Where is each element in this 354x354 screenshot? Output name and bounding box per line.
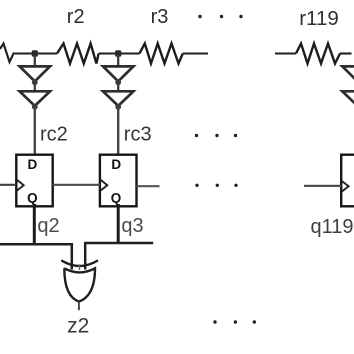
svg-text:r2: r2 [67,6,85,28]
label q2 [37,215,59,237]
wire (node rc2 down) [34,55,36,67]
label r119 [299,7,339,30]
wire rc3 (down to flip-flop) [117,107,119,155]
svg-text:rc3: rc3 [124,123,152,145]
svg-text:D: D [111,157,121,172]
wire q3 (Q output down) [117,206,120,244]
wire (between buffers col rc2) [34,82,36,92]
xor gate center tick [79,264,81,270]
node rc3 junction [115,50,121,57]
svg-text:r3: r3 [151,6,169,28]
label Q (U3) [111,190,122,205]
inverter buffer 1 col rc119 (clipped) [342,66,354,81]
node rc2 junction [32,50,38,57]
xor gate input arc [61,260,98,266]
resistor r119 [296,44,340,64]
flip-flop U3 box [100,155,137,207]
wire (between buffers col rc3) [117,82,119,92]
svg-text:Q: Q [111,190,122,205]
junction dot [115,79,121,85]
wire (node rc3 down) [117,55,119,67]
wire stub right of U3 [137,185,160,187]
wire (r1 stub, top-left) [0,44,57,63]
label D (U2) [28,157,38,172]
inverter buffer 1 col rc3 [103,66,133,81]
label q3 [121,215,143,237]
svg-text:Q: Q [27,190,38,205]
svg-text:q119: q119 [311,216,354,238]
label rc2 [40,123,68,145]
wire (right of r119) [340,52,352,54]
inverter buffer 2 col rc119 (clipped) [342,91,354,106]
svg-text:q3: q3 [121,215,143,237]
resistor r3 [140,44,183,64]
wire q3 bus to xor [85,243,153,270]
label z2 [67,314,89,337]
svg-text:rc2: rc2 [40,123,68,145]
ellipsis rc row [195,134,237,137]
clock input symbol (U119) [342,181,349,192]
wire (right of r3) [183,52,208,54]
inverter buffer 2 col rc2 [20,91,50,106]
junction dot [115,104,121,110]
svg-text:D: D [28,157,38,172]
svg-text:r119: r119 [299,7,339,30]
flip-flop U119 box (clipped) [341,155,354,207]
svg-text:z2: z2 [67,314,89,337]
wire U2 to U3 [53,184,100,186]
ellipsis top row [198,15,242,18]
wire (left of r119) [275,52,296,54]
xor output wire z2 [78,301,80,310]
wire q2 (Q output down) [33,206,36,245]
wire rc2 (down to flip-flop) [34,107,36,155]
label Q (U2) [27,190,38,205]
xor gate body [64,268,95,301]
label r2 [67,6,85,28]
ellipsis ff row [195,184,237,187]
svg-text:q2: q2 [37,215,59,237]
junction dot [32,79,38,85]
label D (U3) [111,157,121,172]
label rc3 [124,123,152,145]
wire (node rc2 to r3) [99,52,140,54]
label q119 [311,216,354,238]
label r3 [151,6,169,28]
wire q2 bus to xor [0,244,72,269]
wire clock into U2 [0,184,16,186]
clock input symbol (U2) [17,180,24,191]
resistor r2 [57,44,99,64]
inverter buffer 1 col rc2 [20,66,50,81]
junction dot [32,104,38,110]
ellipsis bottom row [213,320,256,323]
clock input symbol (U3) [101,180,108,191]
wire into U119 [304,185,341,187]
inverter buffer 2 col rc3 [103,91,133,106]
flip-flop U2 box [16,155,52,207]
